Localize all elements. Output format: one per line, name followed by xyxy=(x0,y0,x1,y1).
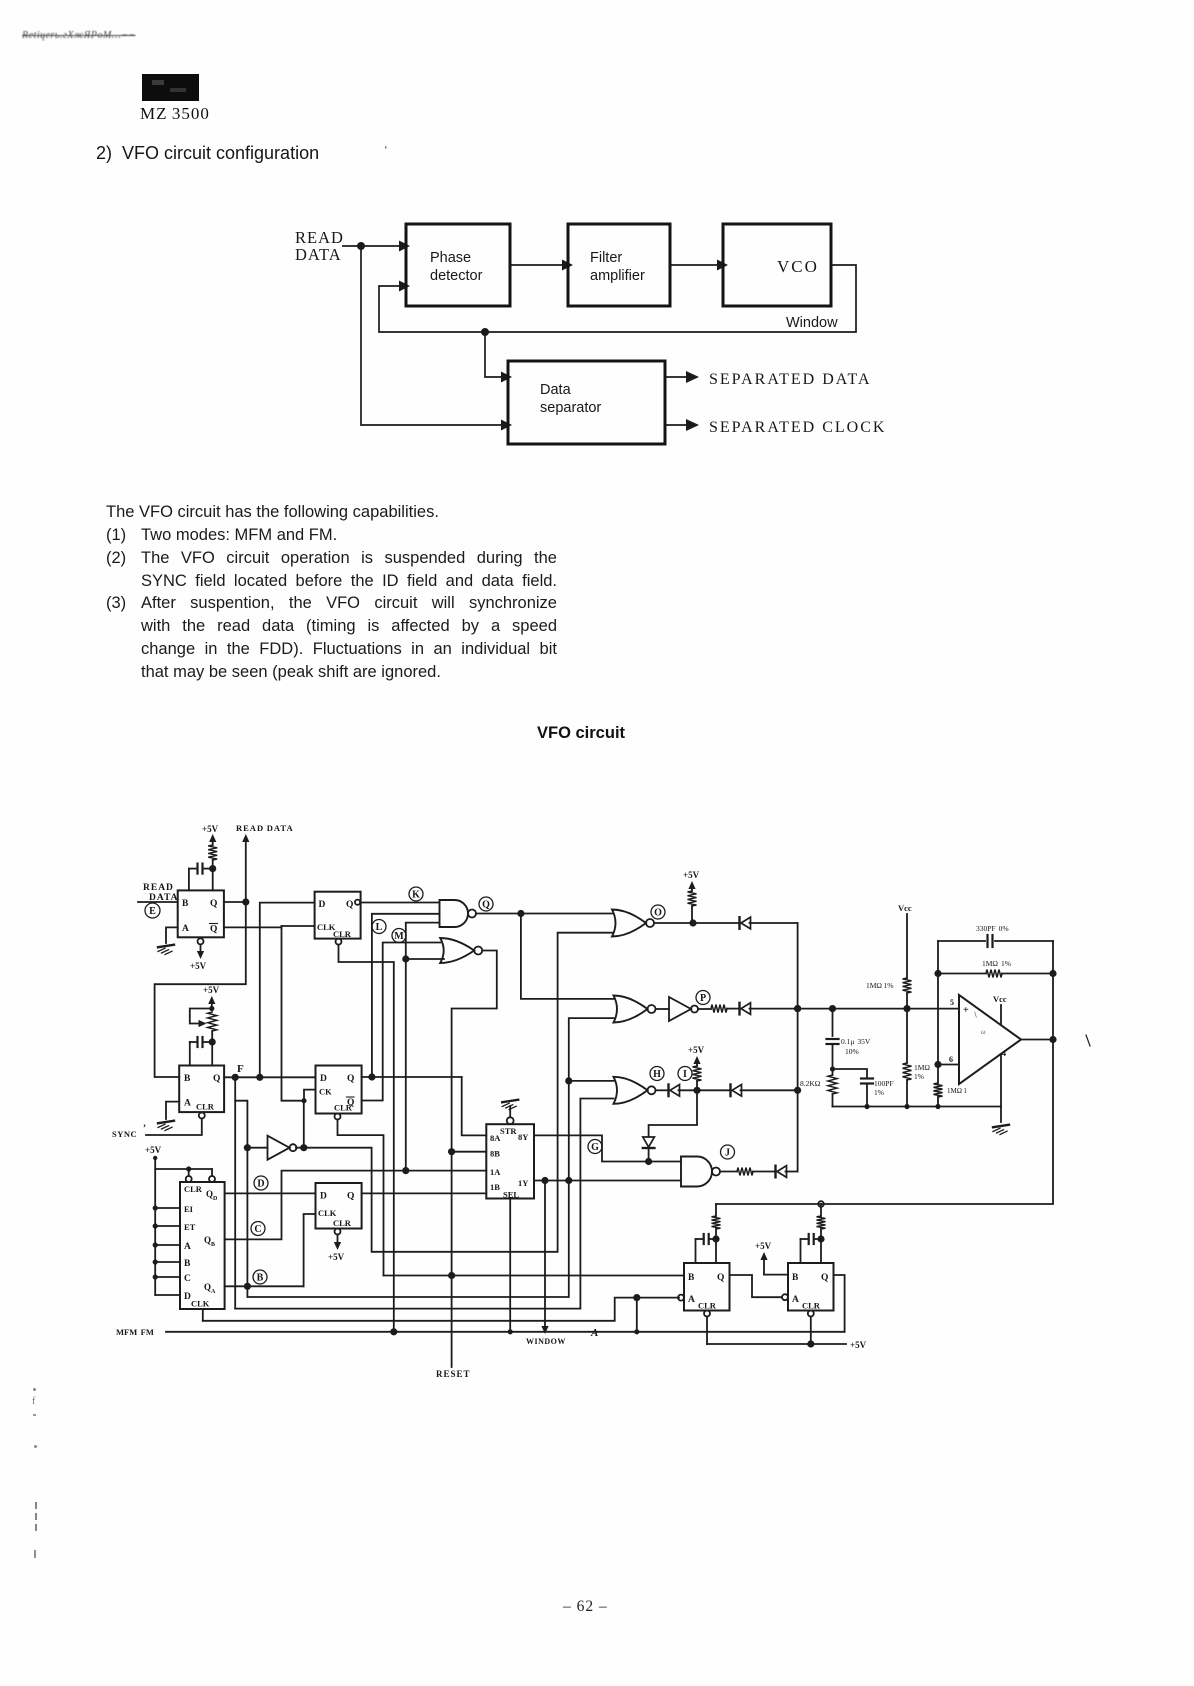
svg-text:+5V: +5V xyxy=(202,824,219,834)
svg-text:+5V: +5V xyxy=(688,1045,705,1055)
svg-text:D: D xyxy=(319,900,326,910)
svg-text:+5V: +5V xyxy=(755,1241,772,1251)
wire DFF1.Q to NAND K xyxy=(360,902,439,904)
svg-text:8Y: 8Y xyxy=(518,1132,528,1142)
wire Q to NOR P top xyxy=(521,914,614,999)
svg-text:1%: 1% xyxy=(874,1088,884,1097)
svg-text:I: I xyxy=(683,1069,687,1080)
svg-text:CLR: CLR xyxy=(196,1102,215,1112)
wire WINDOW drop xyxy=(544,1181,546,1327)
wire A-line drop xyxy=(636,1298,638,1332)
block Data separator xyxy=(508,361,665,444)
svg-text:8B: 8B xyxy=(490,1149,500,1159)
wire OS-L cap lead xyxy=(695,1239,697,1263)
node C (circled) xyxy=(251,1222,265,1236)
wire cap leads xyxy=(189,868,198,870)
svg-text:8.2KΩ: 8.2KΩ xyxy=(800,1079,821,1088)
svg-text:Phase: Phase xyxy=(430,250,471,266)
svg-text:D: D xyxy=(213,1196,218,1202)
svg-text:SYNC: SYNC xyxy=(112,1129,137,1139)
resistor (OS-R timing) xyxy=(817,1216,826,1229)
diode D-H1 xyxy=(656,1089,669,1091)
svg-text:Filter: Filter xyxy=(590,250,622,266)
svg-text:L: L xyxy=(376,922,383,933)
svg-text:C: C xyxy=(254,1224,261,1235)
node F.Q junction 1 xyxy=(232,1074,239,1081)
node read data junction xyxy=(357,242,365,250)
svg-text:WINDOW: WINDOW xyxy=(526,1337,566,1346)
svg-text:EI: EI xyxy=(184,1204,194,1214)
svg-text:Q: Q xyxy=(347,1098,354,1108)
capacitor 100PF 1% xyxy=(861,1077,873,1079)
wire rail branch to CLR pins xyxy=(155,1168,212,1170)
wire separated data out xyxy=(665,376,686,378)
node J bottom tap xyxy=(565,1177,572,1184)
svg-text:100PF: 100PF xyxy=(874,1079,894,1088)
svg-text:Q: Q xyxy=(210,925,217,935)
wire QA output xyxy=(225,1285,304,1287)
wire R to node xyxy=(211,1031,213,1066)
wire R to node xyxy=(212,860,214,890)
wire reset line to OS-L.B xyxy=(384,1275,685,1277)
node Q (circled) xyxy=(479,897,493,911)
wire -input xyxy=(938,1064,959,1066)
gate NOR O xyxy=(612,910,646,937)
one-shot F box xyxy=(179,1066,224,1113)
svg-text:Vcc: Vcc xyxy=(898,903,912,913)
wire DFF2.Q to NAND K mid input xyxy=(372,914,440,1077)
resistor (O pull-up) xyxy=(688,891,697,906)
svg-text:CLK: CLK xyxy=(191,1299,210,1309)
svg-text:A: A xyxy=(211,1289,216,1295)
wire read data branch down xyxy=(361,246,501,425)
svg-text:Q: Q xyxy=(210,899,217,909)
svg-text:SEL: SEL xyxy=(503,1190,519,1200)
wire rail pin stubs xyxy=(155,1207,180,1209)
op-amp U1 xyxy=(959,995,1021,1084)
svg-text:Q: Q xyxy=(204,1235,211,1245)
ground (F) xyxy=(158,1121,174,1123)
resistor 8.2K xyxy=(828,1075,837,1094)
node F.Q junction 2 xyxy=(256,1074,263,1081)
wire QB to 1A line xyxy=(225,1171,487,1240)
capacitor 0.1u 35V xyxy=(827,1038,839,1040)
svg-text:CLR: CLR xyxy=(333,929,352,939)
svg-text:Vcc: Vcc xyxy=(993,994,1007,1004)
resistor 1M 1% lower xyxy=(903,1063,912,1080)
wire inverter out to clock rail xyxy=(303,1101,305,1148)
svg-text:CLR: CLR xyxy=(802,1301,821,1311)
ground (STR) xyxy=(502,1100,518,1102)
svg-text:0.1μ 35V: 0.1μ 35V xyxy=(841,1037,871,1046)
pin OS-R.A bubble xyxy=(782,1294,788,1300)
wire pin4 ground stub xyxy=(1000,1107,1002,1123)
block Phase detector xyxy=(406,224,510,306)
wire READ DATA riser xyxy=(242,834,249,842)
wire clock rail vertical xyxy=(282,926,305,1101)
svg-text:Q: Q xyxy=(347,1074,354,1084)
node H bus junction xyxy=(794,1087,801,1094)
node O pull-up junction xyxy=(689,919,696,926)
gate NOR P xyxy=(614,996,648,1023)
stray mark xyxy=(1086,1035,1090,1046)
flip-flop DFF1 box xyxy=(315,892,361,939)
svg-text:CLR: CLR xyxy=(333,1218,352,1228)
node F timing junction xyxy=(209,1038,216,1045)
node read-data junction xyxy=(242,898,249,905)
node window junction xyxy=(541,1177,548,1184)
ground (E) xyxy=(158,945,174,947)
wire DFF2.Qbar to NOR M xyxy=(362,943,441,1101)
resistor (OS-L timing) xyxy=(712,1216,721,1229)
node A-line junction xyxy=(633,1294,640,1301)
wire inverter input xyxy=(247,1147,267,1149)
svg-text:Data: Data xyxy=(540,382,572,398)
wire to pull-up node xyxy=(679,1089,731,1091)
wire DFF2.Q to STR 8A xyxy=(462,1077,487,1135)
pin counter CLR bubbles xyxy=(186,1176,192,1182)
node OS-R timing junction xyxy=(817,1235,824,1242)
node P (circled) xyxy=(696,991,710,1005)
wire to NOR H top xyxy=(569,1080,614,1082)
svg-text:1MΩ 1: 1MΩ 1 xyxy=(947,1087,967,1095)
wire READ DATA to E.B xyxy=(138,901,178,903)
wire OS-R.Q drop xyxy=(834,1275,845,1332)
svg-text:RESET: RESET xyxy=(436,1369,471,1379)
node inverter output junction xyxy=(300,1144,307,1151)
svg-text:CLR: CLR xyxy=(698,1301,717,1311)
svg-text:SEPARATED CLOCK: SEPARATED CLOCK xyxy=(709,419,886,436)
resistor 1M 1% feedback xyxy=(986,970,1002,978)
node QA junction xyxy=(244,1283,251,1290)
svg-text:A: A xyxy=(182,924,189,934)
diode D-O xyxy=(738,917,740,929)
svg-text:K: K xyxy=(412,890,420,901)
one-shot OS-L box xyxy=(684,1263,730,1311)
pin DFF1.CLR xyxy=(336,939,342,945)
capacitor (OS-R timing) xyxy=(808,1234,810,1244)
svg-text:1A: 1A xyxy=(490,1167,501,1177)
svg-text:Q: Q xyxy=(204,1282,211,1292)
wire feedback resistor run xyxy=(938,973,986,975)
svg-text:J: J xyxy=(725,1148,730,1159)
svg-text:A: A xyxy=(688,1295,695,1305)
svg-text:B: B xyxy=(184,1074,191,1084)
node J (circled) xyxy=(721,1145,735,1159)
wire DFF1.CLK xyxy=(282,925,315,927)
arrowheads xyxy=(399,241,410,252)
wire F.Q output xyxy=(224,1076,315,1078)
svg-text:CLR: CLR xyxy=(184,1184,203,1194)
capacitor (F timing C) xyxy=(196,1037,198,1047)
node P bus junction xyxy=(794,1005,801,1012)
node reset junction xyxy=(448,1272,455,1279)
node M (circled) xyxy=(392,929,406,943)
wire NAND K output Q xyxy=(476,913,612,915)
node K (circled) xyxy=(409,887,423,901)
svg-text:ω: ω xyxy=(981,1028,986,1036)
svg-text:detector: detector xyxy=(430,268,483,284)
svg-text:ET: ET xyxy=(184,1222,196,1232)
node fb left xyxy=(934,970,941,977)
svg-text:Q: Q xyxy=(482,900,490,911)
wire feedback top xyxy=(938,940,985,942)
wire OS-L.Q to OS-R.A xyxy=(730,1275,783,1297)
resistor (P series) xyxy=(698,1008,711,1010)
diode D-J xyxy=(774,1166,776,1178)
section heading xyxy=(96,143,319,164)
flip-flop DFF3 box xyxy=(316,1183,362,1229)
svg-text:+: + xyxy=(963,1005,969,1016)
node L (circled) xyxy=(372,920,386,934)
svg-text:READ: READ xyxy=(143,883,174,893)
wire separated clock out xyxy=(665,424,686,426)
svg-text:MFM FM: MFM FM xyxy=(116,1327,154,1337)
wire D-G to NAND J input xyxy=(648,1148,650,1162)
wire to STR 8B xyxy=(452,1151,487,1153)
svg-text:CLK: CLK xyxy=(318,1208,337,1218)
svg-text:CK: CK xyxy=(319,1087,332,1097)
wire filter to vco xyxy=(670,264,717,266)
wire E.A to ground xyxy=(166,927,178,943)
wire E.Qbar to clock rail xyxy=(224,926,282,928)
svg-text:D: D xyxy=(184,1292,191,1302)
wire DFF2.CLR to reset line xyxy=(338,1120,384,1276)
node Vcc divider tap xyxy=(903,1005,910,1012)
wire E.Q output xyxy=(224,901,246,903)
svg-text:1Y: 1Y xyxy=(518,1178,528,1188)
resistor (F timing R) xyxy=(208,1012,217,1031)
wire OS-R cap lead xyxy=(800,1239,802,1263)
wire 100PF branch xyxy=(833,1069,868,1078)
node 8B tap xyxy=(448,1148,455,1155)
capacitor (E timing C) xyxy=(196,864,198,874)
pin OS-L.CLR bubble xyxy=(704,1311,710,1317)
svg-text:G: G xyxy=(591,1142,599,1153)
svg-text:A: A xyxy=(184,1242,191,1252)
wire filter drop xyxy=(832,1009,834,1036)
diode D-G (vertical) xyxy=(643,1137,655,1147)
svg-text:8A: 8A xyxy=(490,1133,501,1143)
svg-text:D: D xyxy=(320,1074,327,1084)
wire NOR M output to reset vertical xyxy=(452,951,497,1276)
left margin stray marks xyxy=(33,1388,36,1391)
wire H node to diode G xyxy=(649,1090,697,1136)
svg-text:separator: separator xyxy=(540,400,601,416)
svg-text:A: A xyxy=(590,1327,598,1339)
node diode junction G xyxy=(645,1158,652,1165)
svg-text:B: B xyxy=(257,1273,264,1284)
svg-text:P: P xyxy=(700,993,706,1004)
wire F.A to ground xyxy=(166,1102,179,1119)
gate NAND J xyxy=(681,1157,712,1187)
wire NAND K bottom input / C-line vertical xyxy=(406,923,440,1171)
wire cap leads F xyxy=(190,1041,198,1043)
svg-text:M: M xyxy=(394,931,404,942)
svg-text:+5V: +5V xyxy=(328,1252,345,1262)
svg-text:+5V: +5V xyxy=(145,1145,162,1155)
resistor (H pull-up) xyxy=(693,1066,702,1081)
svg-text:1MΩ: 1MΩ xyxy=(914,1063,930,1072)
svg-text:Q: Q xyxy=(347,1192,354,1202)
svg-text:6: 6 xyxy=(949,1055,953,1064)
wire right bus xyxy=(716,941,1053,1204)
svg-text:SEPARATED DATA: SEPARATED DATA xyxy=(709,371,872,388)
wire window feedback loop xyxy=(379,265,856,332)
svg-text:330PF 0%: 330PF 0% xyxy=(976,924,1009,933)
svg-text:B: B xyxy=(182,899,189,909)
wire DFF2.Q output xyxy=(362,1076,462,1078)
wire SEL to MFM line xyxy=(509,1199,511,1332)
node G (circled) xyxy=(588,1140,602,1154)
node OS-L timing junction xyxy=(712,1235,719,1242)
pin F.CLR to SYNC xyxy=(199,1113,205,1119)
node Q junction xyxy=(517,910,524,917)
block VCO xyxy=(723,224,831,306)
node H top tap xyxy=(565,1077,572,1084)
wire divider mid xyxy=(906,1009,908,1063)
node C-line NOR M tap xyxy=(402,955,409,962)
wire 8Y output xyxy=(534,1135,681,1161)
svg-text:+5V: +5V xyxy=(190,961,207,971)
wire phase to filter xyxy=(510,264,562,266)
node O (circled) xyxy=(651,905,665,919)
pin DFF3.CLR to +5V xyxy=(335,1229,341,1235)
wire counter CLK stub xyxy=(202,1309,204,1321)
inverter U-P xyxy=(656,1008,670,1010)
wire DFF2.CK stub xyxy=(304,1090,316,1101)
svg-text:STR: STR xyxy=(500,1126,517,1136)
node DFF2.Q junction xyxy=(368,1073,375,1080)
wire +5V to OS-R.B xyxy=(764,1274,788,1276)
inverter U-inv xyxy=(268,1136,290,1160)
VFO circuit title xyxy=(537,724,625,743)
MZ 3500 xyxy=(140,104,210,124)
pin OS-L.A bubble xyxy=(678,1295,684,1301)
wire H to bus xyxy=(741,1089,798,1091)
wire MFM FM line xyxy=(166,1331,845,1333)
svg-text:DATA: DATA xyxy=(295,245,342,264)
pin DFF1.Q xyxy=(355,900,360,905)
svg-text:+5V: +5V xyxy=(203,985,220,995)
wire DFF3.CLK from QA riser xyxy=(304,1214,316,1286)
svg-text:B: B xyxy=(211,1242,215,1248)
wire diode bus vertical xyxy=(797,923,799,1172)
svg-text:10%: 10% xyxy=(845,1047,859,1056)
node OS-R CLR join xyxy=(807,1340,814,1347)
node H (circled) xyxy=(650,1067,664,1081)
wire op-amp output xyxy=(1021,1039,1053,1041)
wire branch to window-inverter rail xyxy=(235,1101,247,1297)
node window junction xyxy=(481,328,489,336)
black logo box xyxy=(142,74,199,101)
svg-text:amplifier: amplifier xyxy=(590,268,645,284)
svg-text:+5V: +5V xyxy=(683,870,700,880)
wire rail to D pin xyxy=(155,1294,180,1296)
wire counter line to NOR H bottom xyxy=(235,1099,613,1309)
svg-text:Window: Window xyxy=(786,315,838,331)
node D (circled) xyxy=(254,1176,268,1190)
svg-text:Q: Q xyxy=(821,1273,828,1283)
pin DFF2.CLR xyxy=(335,1114,341,1120)
wire 1Y output xyxy=(534,1180,681,1182)
top-left smudged stamp xyxy=(22,30,136,41)
svg-text:B: B xyxy=(184,1259,191,1269)
svg-text:B: B xyxy=(792,1273,799,1283)
node fb right xyxy=(1049,970,1056,977)
selector STR box xyxy=(486,1124,534,1198)
svg-text:F: F xyxy=(237,1063,244,1075)
one-shot OS-R box xyxy=(788,1263,834,1311)
svg-text:O: O xyxy=(654,908,662,919)
wire left OS timing xyxy=(715,1204,717,1216)
wire O to bus xyxy=(750,922,798,924)
svg-text:D: D xyxy=(257,1179,264,1190)
svg-text:E: E xyxy=(149,906,156,917)
wire window to data separator xyxy=(485,332,501,377)
node E timing junction xyxy=(209,865,216,872)
wire P line to op-amp xyxy=(750,1008,960,1010)
node reset tap xyxy=(450,1273,455,1278)
svg-text:VCO: VCO xyxy=(777,257,819,276)
node C-line 1A junction xyxy=(402,1167,409,1174)
wire O output xyxy=(654,922,740,924)
gate NOR M xyxy=(440,938,474,963)
node E (circled) xyxy=(145,903,160,918)
wire cap to node xyxy=(832,1044,834,1075)
svg-text:4: 4 xyxy=(1002,1049,1006,1058)
wire inverter output run xyxy=(296,933,612,1252)
ground (op-amp) xyxy=(993,1125,1009,1127)
trimmer wiper loop xyxy=(190,1009,212,1024)
one-shot E box xyxy=(178,890,224,937)
wire counter line to one-shot A xyxy=(203,1298,679,1321)
svg-text:Q: Q xyxy=(346,900,353,910)
pin OS-R.CLR bubble xyxy=(808,1311,814,1317)
svg-text:1B: 1B xyxy=(490,1182,500,1192)
svg-text:H: H xyxy=(653,1069,661,1080)
wire QA to window-feed line xyxy=(247,1018,613,1297)
block Filter amplifier xyxy=(568,224,670,306)
wire DFF1.CLR to MFM line xyxy=(339,945,394,1332)
node filter tap xyxy=(829,1005,836,1012)
node right bus tap xyxy=(818,1201,824,1207)
svg-text:C: C xyxy=(184,1274,191,1284)
node O-P bus junction xyxy=(794,1005,801,1012)
svg-text:D: D xyxy=(320,1192,327,1202)
gate NOR H xyxy=(614,1077,648,1104)
svg-text:READ DATA: READ DATA xyxy=(236,823,294,833)
page number xyxy=(563,1598,608,1616)
capacitor 330PF xyxy=(986,935,988,947)
node filter mid xyxy=(830,1066,835,1071)
wire filter ground bus xyxy=(833,1106,1002,1108)
node rail taps xyxy=(153,1205,158,1210)
wire QD to DFF3.D xyxy=(225,1192,316,1194)
wire counter +5V rail xyxy=(154,1158,156,1295)
svg-text:Q: Q xyxy=(213,1074,220,1084)
diode D-P xyxy=(738,1003,740,1015)
svg-text:+5V: +5V xyxy=(850,1340,867,1350)
svg-text:A: A xyxy=(184,1099,191,1109)
wire NOR M bottom input xyxy=(406,958,444,960)
svg-text:Q: Q xyxy=(206,1189,213,1199)
resistor (E timing R) xyxy=(208,845,217,860)
wire DFF3.Q to STR 1B xyxy=(362,1192,487,1194)
wire right OS timing xyxy=(820,1204,822,1216)
node clock rail corner xyxy=(301,1098,306,1103)
diode D-H2 xyxy=(729,1085,731,1097)
